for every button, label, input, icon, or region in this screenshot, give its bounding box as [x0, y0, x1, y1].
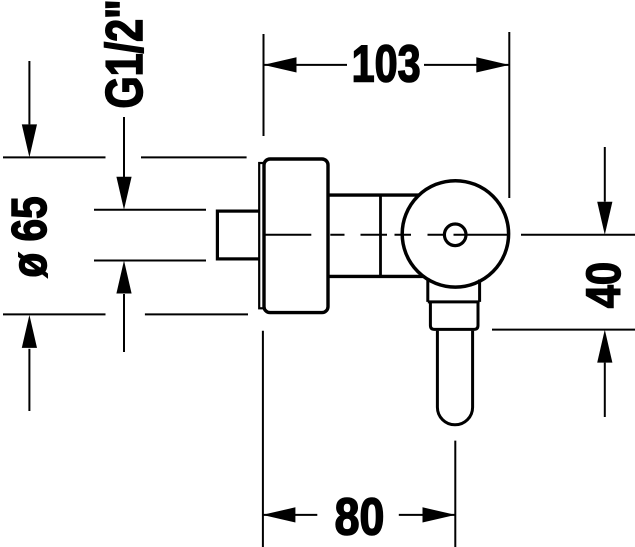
dim 40: upper dimension line [604, 147, 606, 202]
dim 80: dimension line [262, 514, 456, 516]
dim 103: right arrow [476, 57, 509, 72]
vertical centerline below escutcheon (also 80-dim left extension) [262, 331, 264, 547]
dim o65: lower dimension line [28, 349, 30, 411]
body separator line [379, 195, 382, 276]
handle collar upper section [428, 278, 480, 302]
dim 103: left extension line [263, 34, 265, 136]
dim G1/2: top extension line [94, 209, 206, 211]
dim 80: right arrow [423, 507, 456, 522]
handle grip (capsule) [437, 331, 472, 425]
handle disc (big circle) [402, 181, 508, 287]
horizontal centerline dashes [265, 234, 508, 236]
svg-text:40: 40 [577, 262, 630, 308]
body top line [328, 193, 421, 196]
dim 80: right extension line [454, 441, 456, 547]
dim o65: upper arrow [22, 124, 37, 157]
dim 80: left arrow [262, 507, 295, 522]
dim 40: bottom extension line [492, 329, 635, 331]
hub (small circle) [444, 224, 466, 246]
svg-text:80: 80 [335, 488, 385, 546]
dim 40: lower arrow [597, 330, 612, 363]
svg-text:G1/2": G1/2" [94, 0, 153, 109]
svg-text:ø 65: ø 65 [1, 196, 57, 277]
dim G1/2: lower arrow line [123, 294, 125, 352]
handle collar lower section [430, 302, 478, 330]
wall plate [259, 163, 264, 308]
dim o65: bottom extension line [3, 313, 248, 315]
dim G1/2: upper arrow line [123, 117, 125, 178]
dim 103: dimension line [264, 64, 510, 66]
dim o65: lower arrow [22, 315, 37, 348]
dim o65: upper dimension line [28, 61, 30, 124]
dim o65: top extension line [3, 156, 247, 158]
dim 40: lower dimension line [604, 363, 606, 417]
dim 40: upper arrow [597, 202, 612, 235]
svg-text:103: 103 [352, 34, 421, 93]
dim G1/2: bottom extension line [94, 260, 206, 262]
dim 103: left arrow [264, 57, 297, 72]
dim G1/2: lower arrow [116, 261, 131, 294]
dim G1/2: upper arrow [116, 177, 131, 210]
body bottom line [328, 275, 425, 278]
escutcheon (rounded flange) [264, 159, 328, 313]
dim 103: right extension line [508, 32, 510, 198]
dim 40: top extension line [521, 234, 635, 236]
pipe stub G1/2 connector [217, 211, 261, 259]
